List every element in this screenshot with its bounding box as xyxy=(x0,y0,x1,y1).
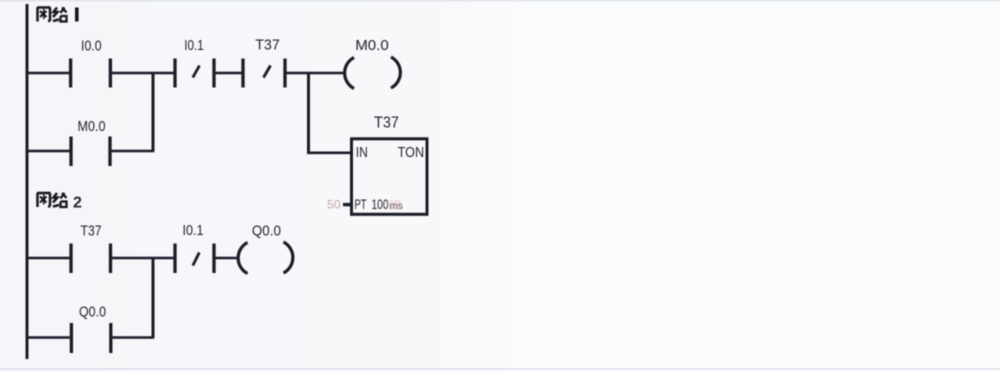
network 1 header 网络 1 (drawn glyphs) xyxy=(37,8,77,22)
digit 1 xyxy=(75,8,79,22)
wire I0.1 to coil Q0.0 xyxy=(216,257,238,260)
network 2 header 网络 2 (drawn glyphs) xyxy=(37,193,67,207)
contact I0.0 left bar xyxy=(69,59,72,88)
svg-text:M0.0: M0.0 xyxy=(78,118,106,135)
svg-text:M0.0: M0.0 xyxy=(355,37,389,54)
svg-text:2: 2 xyxy=(73,195,82,212)
contact I0.1 NC slash xyxy=(193,66,200,78)
contact I0.1(2) left bar (NC) xyxy=(173,244,176,274)
svg-text:I0.1: I0.1 xyxy=(183,222,204,239)
contact Q0.0 right bar xyxy=(109,323,112,353)
wire rail to contact M0.0 xyxy=(27,150,70,153)
network 1: wire rail to contact I0.0 xyxy=(27,72,69,75)
contact Q0.0 left bar xyxy=(70,323,73,353)
svg-text:Q0.0: Q0.0 xyxy=(252,223,281,240)
网 xyxy=(37,8,51,22)
svg-text:TON: TON xyxy=(398,145,425,161)
svg-text:T37: T37 xyxy=(81,223,102,240)
svg-text:Q0.0: Q0.0 xyxy=(79,304,106,321)
svg-text:I0.1: I0.1 xyxy=(184,37,204,54)
wire I0.0 to I0.1 xyxy=(112,72,174,75)
top edge scan line xyxy=(0,0,1000,2)
contact I0.0 right bar xyxy=(109,59,112,88)
wire T37 to I0.1(2) xyxy=(112,257,174,260)
svg-text:I0.0: I0.0 xyxy=(81,38,102,55)
contact I0.1(2) NC slash xyxy=(193,253,200,266)
contact I0.1 left bar (NC) xyxy=(173,59,176,88)
contact T37(2) right bar xyxy=(109,244,112,274)
coil M0.0 right paren xyxy=(391,57,400,88)
contact T37 NC slash xyxy=(264,66,271,78)
network 2: wire rail to contact T37 xyxy=(27,257,70,260)
branch junction network1 parallel xyxy=(152,73,155,151)
svg-text:T37: T37 xyxy=(374,115,399,132)
contact I0.1 right bar xyxy=(212,59,215,88)
coil Q0.0 left paren xyxy=(238,243,247,274)
络 xyxy=(53,8,59,22)
timer unit ms xyxy=(389,200,402,210)
contact T37 left bar (NC) xyxy=(241,59,244,88)
svg-text:100: 100 xyxy=(372,196,389,212)
left power rail xyxy=(26,4,29,359)
络 xyxy=(53,193,59,207)
svg-text:ms: ms xyxy=(390,201,403,212)
wire I0.1 to T37 xyxy=(216,72,242,75)
网 xyxy=(37,193,51,207)
contact I0.1(2) right bar xyxy=(212,244,215,274)
contact T37(2) left bar xyxy=(69,244,72,274)
branch junction to timer xyxy=(307,73,310,153)
contact T37 right bar xyxy=(283,59,286,88)
coil M0.0 left paren xyxy=(345,58,354,89)
coil Q0.0 right paren xyxy=(284,242,293,273)
bottom edge scan line xyxy=(0,368,1000,370)
contact M0.0 right bar xyxy=(108,137,111,167)
svg-text:T37: T37 xyxy=(255,37,280,54)
wire Q0.0 to branch xyxy=(112,336,154,339)
branch junction network2 parallel xyxy=(152,258,155,338)
PT input stub wire xyxy=(343,203,351,206)
svg-text:IN: IN xyxy=(356,145,368,161)
wire branch to timer IN xyxy=(307,152,351,155)
contact M0.0 left bar xyxy=(69,137,72,167)
wire T37 to coil M0.0 xyxy=(287,72,344,75)
wire M0.0 to branch xyxy=(112,150,155,153)
svg-text:50: 50 xyxy=(327,198,341,212)
wire rail to contact Q0.0 xyxy=(27,336,70,339)
svg-text:PT: PT xyxy=(355,196,367,212)
timer box T37 TON xyxy=(352,139,428,215)
